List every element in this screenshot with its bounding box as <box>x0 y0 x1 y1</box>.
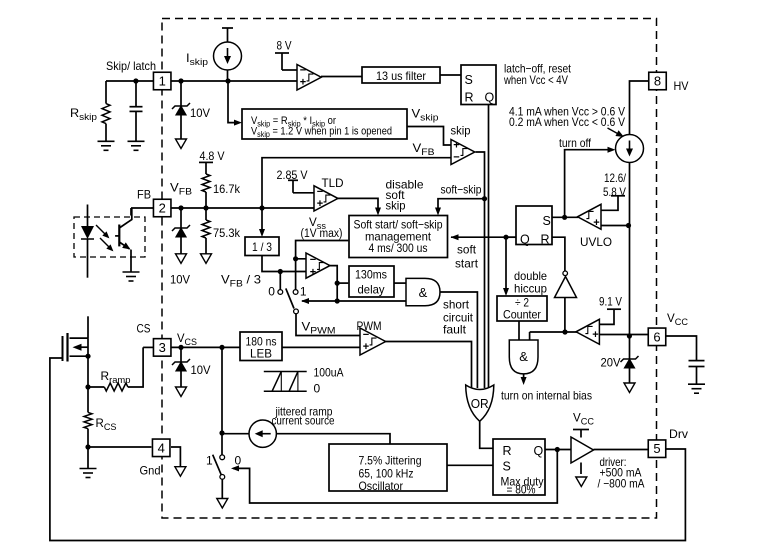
svg-text:20V: 20V <box>601 356 621 370</box>
svg-text:+: + <box>300 77 306 89</box>
svg-text:when Vcc < 4V: when Vcc < 4V <box>503 73 568 87</box>
svg-text:−: − <box>310 254 316 266</box>
svg-text:4: 4 <box>158 440 165 455</box>
svg-text:100uA: 100uA <box>314 366 344 380</box>
svg-text:skip: skip <box>451 124 471 138</box>
svg-text:Vskip = 1.2 V when pin 1 is op: Vskip = 1.2 V when pin 1 is opened <box>251 126 392 140</box>
svg-text:turn off: turn off <box>559 136 592 150</box>
svg-text:Counter: Counter <box>503 308 541 322</box>
svg-text:TLD: TLD <box>322 176 344 190</box>
svg-text:Q: Q <box>520 233 530 247</box>
svg-text:/ −800 mA: / −800 mA <box>598 477 645 491</box>
svg-text:skip: skip <box>386 199 406 213</box>
svg-text:short: short <box>443 298 470 312</box>
svg-text:= 80%: = 80% <box>507 483 536 497</box>
svg-text:+: + <box>593 217 599 229</box>
svg-text:&: & <box>519 349 528 364</box>
svg-text:8: 8 <box>654 74 661 89</box>
svg-text:10V: 10V <box>190 106 210 120</box>
svg-text:+: + <box>317 198 323 210</box>
svg-text:+: + <box>363 341 369 353</box>
svg-text:1: 1 <box>159 74 166 89</box>
svg-text:13 us filter: 13 us filter <box>376 69 426 83</box>
svg-text:8 V: 8 V <box>277 39 292 53</box>
svg-text:2.85 V: 2.85 V <box>277 168 308 182</box>
svg-text:10V: 10V <box>191 363 211 377</box>
svg-text:10V: 10V <box>170 273 190 287</box>
svg-text:9.1 V: 9.1 V <box>599 295 622 309</box>
svg-text:fault: fault <box>443 323 467 337</box>
svg-text:hiccup: hiccup <box>514 282 547 296</box>
svg-text:&: & <box>419 285 428 300</box>
svg-text:PWM: PWM <box>357 319 382 333</box>
svg-text:R: R <box>503 444 512 458</box>
svg-text:+: + <box>453 139 459 151</box>
svg-text:FB: FB <box>137 188 151 202</box>
svg-text:−: − <box>300 65 306 77</box>
svg-text:delay: delay <box>358 283 385 297</box>
svg-text:turn on internal bias: turn on internal bias <box>501 389 592 403</box>
svg-text:75.3k: 75.3k <box>213 226 241 240</box>
svg-text:130ms: 130ms <box>355 268 387 282</box>
svg-text:1: 1 <box>300 285 307 299</box>
svg-text:(1V max): (1V max) <box>301 228 343 240</box>
svg-text:4.8 V: 4.8 V <box>200 149 225 163</box>
svg-text:UVLO: UVLO <box>580 235 612 249</box>
svg-text:−: − <box>453 152 459 164</box>
svg-text:0: 0 <box>268 285 275 299</box>
svg-text:2: 2 <box>159 201 166 216</box>
svg-text:6: 6 <box>653 329 660 344</box>
svg-text:0.2 mA when Vcc < 0.6 V: 0.2 mA when Vcc < 0.6 V <box>509 115 625 129</box>
svg-text:12.6/: 12.6/ <box>604 171 627 185</box>
svg-text:HV: HV <box>674 79 689 93</box>
svg-text:R: R <box>465 91 474 105</box>
svg-text:3: 3 <box>159 340 166 355</box>
svg-text:soft−skip: soft−skip <box>441 183 482 197</box>
svg-text:Q: Q <box>485 91 495 105</box>
svg-text:4 ms/ 300 us: 4 ms/ 300 us <box>369 241 428 255</box>
svg-text:0: 0 <box>314 382 321 396</box>
svg-text:S: S <box>543 214 551 228</box>
svg-text:Drv: Drv <box>669 427 688 441</box>
svg-text:R: R <box>541 233 550 247</box>
svg-text:Skip/ latch: Skip/ latch <box>106 59 156 73</box>
svg-text:1: 1 <box>206 454 213 468</box>
svg-text:0: 0 <box>235 454 242 468</box>
svg-text:5: 5 <box>653 441 660 456</box>
svg-text:7.5% Jittering: 7.5% Jittering <box>359 454 422 468</box>
svg-text:1 / 3: 1 / 3 <box>252 240 272 254</box>
svg-text:LEB: LEB <box>250 347 272 361</box>
svg-text:Q: Q <box>534 444 544 458</box>
svg-text:Gnd: Gnd <box>140 464 161 478</box>
svg-text:+: + <box>592 329 598 341</box>
svg-text:soft: soft <box>457 243 477 257</box>
svg-text:start: start <box>455 257 479 271</box>
svg-text:CS: CS <box>137 322 151 336</box>
svg-text:current source: current source <box>272 414 335 428</box>
svg-text:16.7k: 16.7k <box>213 182 241 196</box>
svg-text:S: S <box>465 73 473 87</box>
svg-text:OR: OR <box>471 396 489 411</box>
svg-text:Oscillator: Oscillator <box>359 479 404 493</box>
svg-text:S: S <box>503 460 511 474</box>
svg-text:5.8 V: 5.8 V <box>603 185 626 199</box>
svg-text:+: + <box>310 267 316 279</box>
